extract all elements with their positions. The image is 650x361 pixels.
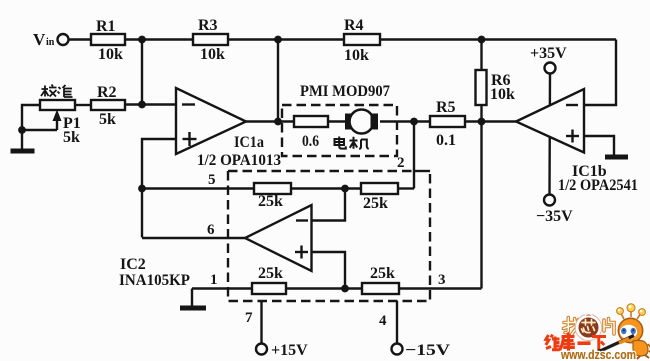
- svg-text:R5: R5: [436, 99, 456, 116]
- +15V supply terminal: [256, 344, 267, 355]
- resistor R5: [430, 116, 465, 127]
- wire R2 to IC1a minus input: [125, 103, 176, 105]
- ground for P1: [11, 149, 35, 154]
- resistor R1: [91, 34, 125, 45]
- svg-text:6: 6: [207, 222, 215, 238]
- wire IC1a plus input to feedback node: [142, 139, 176, 238]
- svg-text:0.6: 0.6: [302, 133, 319, 150]
- resistor 25k a: [254, 183, 291, 194]
- op-amp IC1a: [176, 88, 246, 154]
- IC2 plus sign: [295, 246, 308, 259]
- svg-text:10k: 10k: [98, 46, 123, 63]
- wire motor to R5: [380, 120, 430, 122]
- wire node A down to R2 output node: [141, 40, 143, 105]
- resistor R3: [193, 34, 228, 45]
- svg-text:IC2: IC2: [120, 256, 146, 273]
- svg-text:−15V: −15V: [405, 342, 451, 359]
- motor M left brush: [345, 114, 353, 130]
- motor M right brush: [371, 114, 379, 130]
- svg-text:5k: 5k: [99, 111, 116, 128]
- wire node B down to IC1a output: [277, 40, 279, 122]
- potentiometer P1 body: [40, 100, 75, 110]
- IC2 minus sign: [296, 219, 308, 221]
- svg-text:25k: 25k: [363, 195, 388, 212]
- svg-text:R1: R1: [96, 18, 116, 35]
- op-amp IC2: [245, 205, 312, 271]
- svg-text:INA105KP: INA105KP: [119, 272, 190, 289]
- wire pin5 row left: [142, 187, 254, 189]
- IC1b plus sign: [566, 130, 579, 143]
- IC1b minus sign: [566, 104, 578, 106]
- svg-text:25k: 25k: [370, 265, 395, 282]
- wire 25k a to 25k b: [291, 187, 361, 189]
- IC1a minus sign: [182, 103, 195, 105]
- svg-text:PMI MOD907: PMI MOD907: [300, 83, 390, 100]
- wire P1 left terminal to ground: [22, 105, 40, 149]
- IC1a plus sign: [183, 132, 197, 146]
- wire IC2 plus to node K: [312, 252, 346, 289]
- svg-text:+35V: +35V: [530, 45, 567, 62]
- node G junction output/feedback: [274, 118, 282, 126]
- wire Vin to R1: [69, 38, 92, 40]
- svg-text:7: 7: [245, 310, 253, 326]
- wire pin1 row: [192, 287, 252, 289]
- node F junction feedback pin5: [138, 185, 146, 193]
- supply rail through IC1b: [548, 74, 551, 195]
- wire pin2 stub to IC2 box: [414, 170, 430, 172]
- svg-text:−35V: −35V: [536, 208, 573, 225]
- wire 25k c to 25k d: [286, 287, 362, 289]
- wire R4 to IC1b minus feedback: [380, 38, 616, 40]
- +35V supply terminal: [545, 63, 556, 74]
- node C junction R4/R6: [478, 36, 486, 44]
- resistor 25k b: [361, 183, 398, 194]
- PMI MOD907 dashed module box: [282, 105, 397, 156]
- wire 0.6 resistor to motor: [328, 120, 345, 122]
- svg-text:in: in: [46, 37, 55, 48]
- svg-text:10k: 10k: [200, 46, 225, 63]
- wire R3 to R4: [228, 38, 344, 40]
- svg-text:1/2 OPA2541: 1/2 OPA2541: [558, 177, 638, 194]
- wire pin3 row to node I column: [399, 287, 482, 289]
- svg-text:0.1: 0.1: [436, 132, 456, 149]
- node J junction 25k mid top: [341, 185, 349, 193]
- resistor R4: [344, 34, 380, 45]
- -35V supply terminal: [544, 195, 555, 206]
- svg-text:3: 3: [438, 272, 446, 288]
- wire R6 to node I and down to pin3 row: [480, 105, 482, 289]
- node B junction R3/R4 feedback: [274, 36, 282, 44]
- node K junction 25k mid bottom: [341, 285, 349, 293]
- svg-text:R4: R4: [344, 17, 364, 34]
- resistor 25k c: [252, 283, 286, 294]
- wire pin2 drop: [413, 122, 415, 189]
- svg-text:25k: 25k: [258, 193, 283, 210]
- wire node J to IC2 minus input: [312, 189, 346, 221]
- wire R5 to IC1b output: [465, 120, 516, 122]
- wire IC1a output into PMI module: [246, 120, 294, 122]
- svg-text:+15V: +15V: [271, 342, 308, 359]
- motor M body: [350, 110, 374, 134]
- label Vin: [33, 30, 55, 49]
- svg-text:R2: R2: [97, 84, 117, 101]
- wire IC1b plus to ground: [584, 136, 614, 155]
- resistor 25k d: [362, 283, 399, 294]
- resistor R2: [91, 100, 125, 110]
- svg-text:10k: 10k: [344, 47, 369, 64]
- wire 25k b to pin2 drop: [398, 187, 414, 189]
- wire pin4 drop: [396, 301, 398, 344]
- node H junction motor/R5/pin2: [410, 118, 418, 126]
- resistor 0.6 inside module: [294, 116, 328, 127]
- op-amp IC1b: [516, 89, 584, 153]
- node I junction R5/R6/IC1b out: [478, 118, 486, 126]
- ground for pin1: [180, 306, 206, 311]
- IC2 INA105KP dashed box: [228, 171, 430, 301]
- wire pin7 drop: [260, 301, 262, 344]
- node A junction R1/R2 top: [138, 36, 146, 44]
- input terminal Vin: [58, 34, 69, 45]
- ground for IC1b plus: [605, 155, 628, 160]
- svg-text:10k: 10k: [490, 86, 515, 103]
- svg-text:IC1a: IC1a: [234, 134, 264, 151]
- svg-text:R3: R3: [198, 17, 218, 34]
- wire IC2 output to pin6 row: [142, 237, 245, 239]
- wire feedback down to IC1b minus input: [584, 40, 616, 106]
- wire P1 wiper to ground leg: [22, 129, 57, 131]
- node E junction R2/R1 divider: [138, 101, 146, 109]
- P1 wiper arrow: [56, 116, 58, 130]
- svg-text:25k: 25k: [258, 265, 283, 282]
- svg-text:5k: 5k: [63, 129, 80, 146]
- svg-text:www.dzsc.com: www.dzsc.com: [560, 347, 636, 361]
- -15V supply terminal: [392, 344, 403, 355]
- svg-text:2: 2: [397, 155, 405, 171]
- svg-text:V: V: [33, 30, 46, 49]
- svg-text:1: 1: [210, 272, 218, 288]
- svg-text:4: 4: [379, 313, 387, 329]
- label calibration 校准: [41, 85, 73, 98]
- label motor 电机: [335, 137, 369, 150]
- svg-text:1/2 OPA1013: 1/2 OPA1013: [197, 152, 281, 169]
- node D junction wiper/ground: [18, 126, 26, 134]
- ground leg pin1: [191, 289, 193, 307]
- wire node C down to R6: [480, 40, 482, 71]
- wire P1 to R2: [75, 104, 91, 106]
- watermark logo dzsc: [546, 304, 650, 361]
- svg-text:5: 5: [208, 172, 216, 188]
- resistor R6 vertical: [476, 70, 487, 105]
- wire R1 to R3: [125, 38, 193, 40]
